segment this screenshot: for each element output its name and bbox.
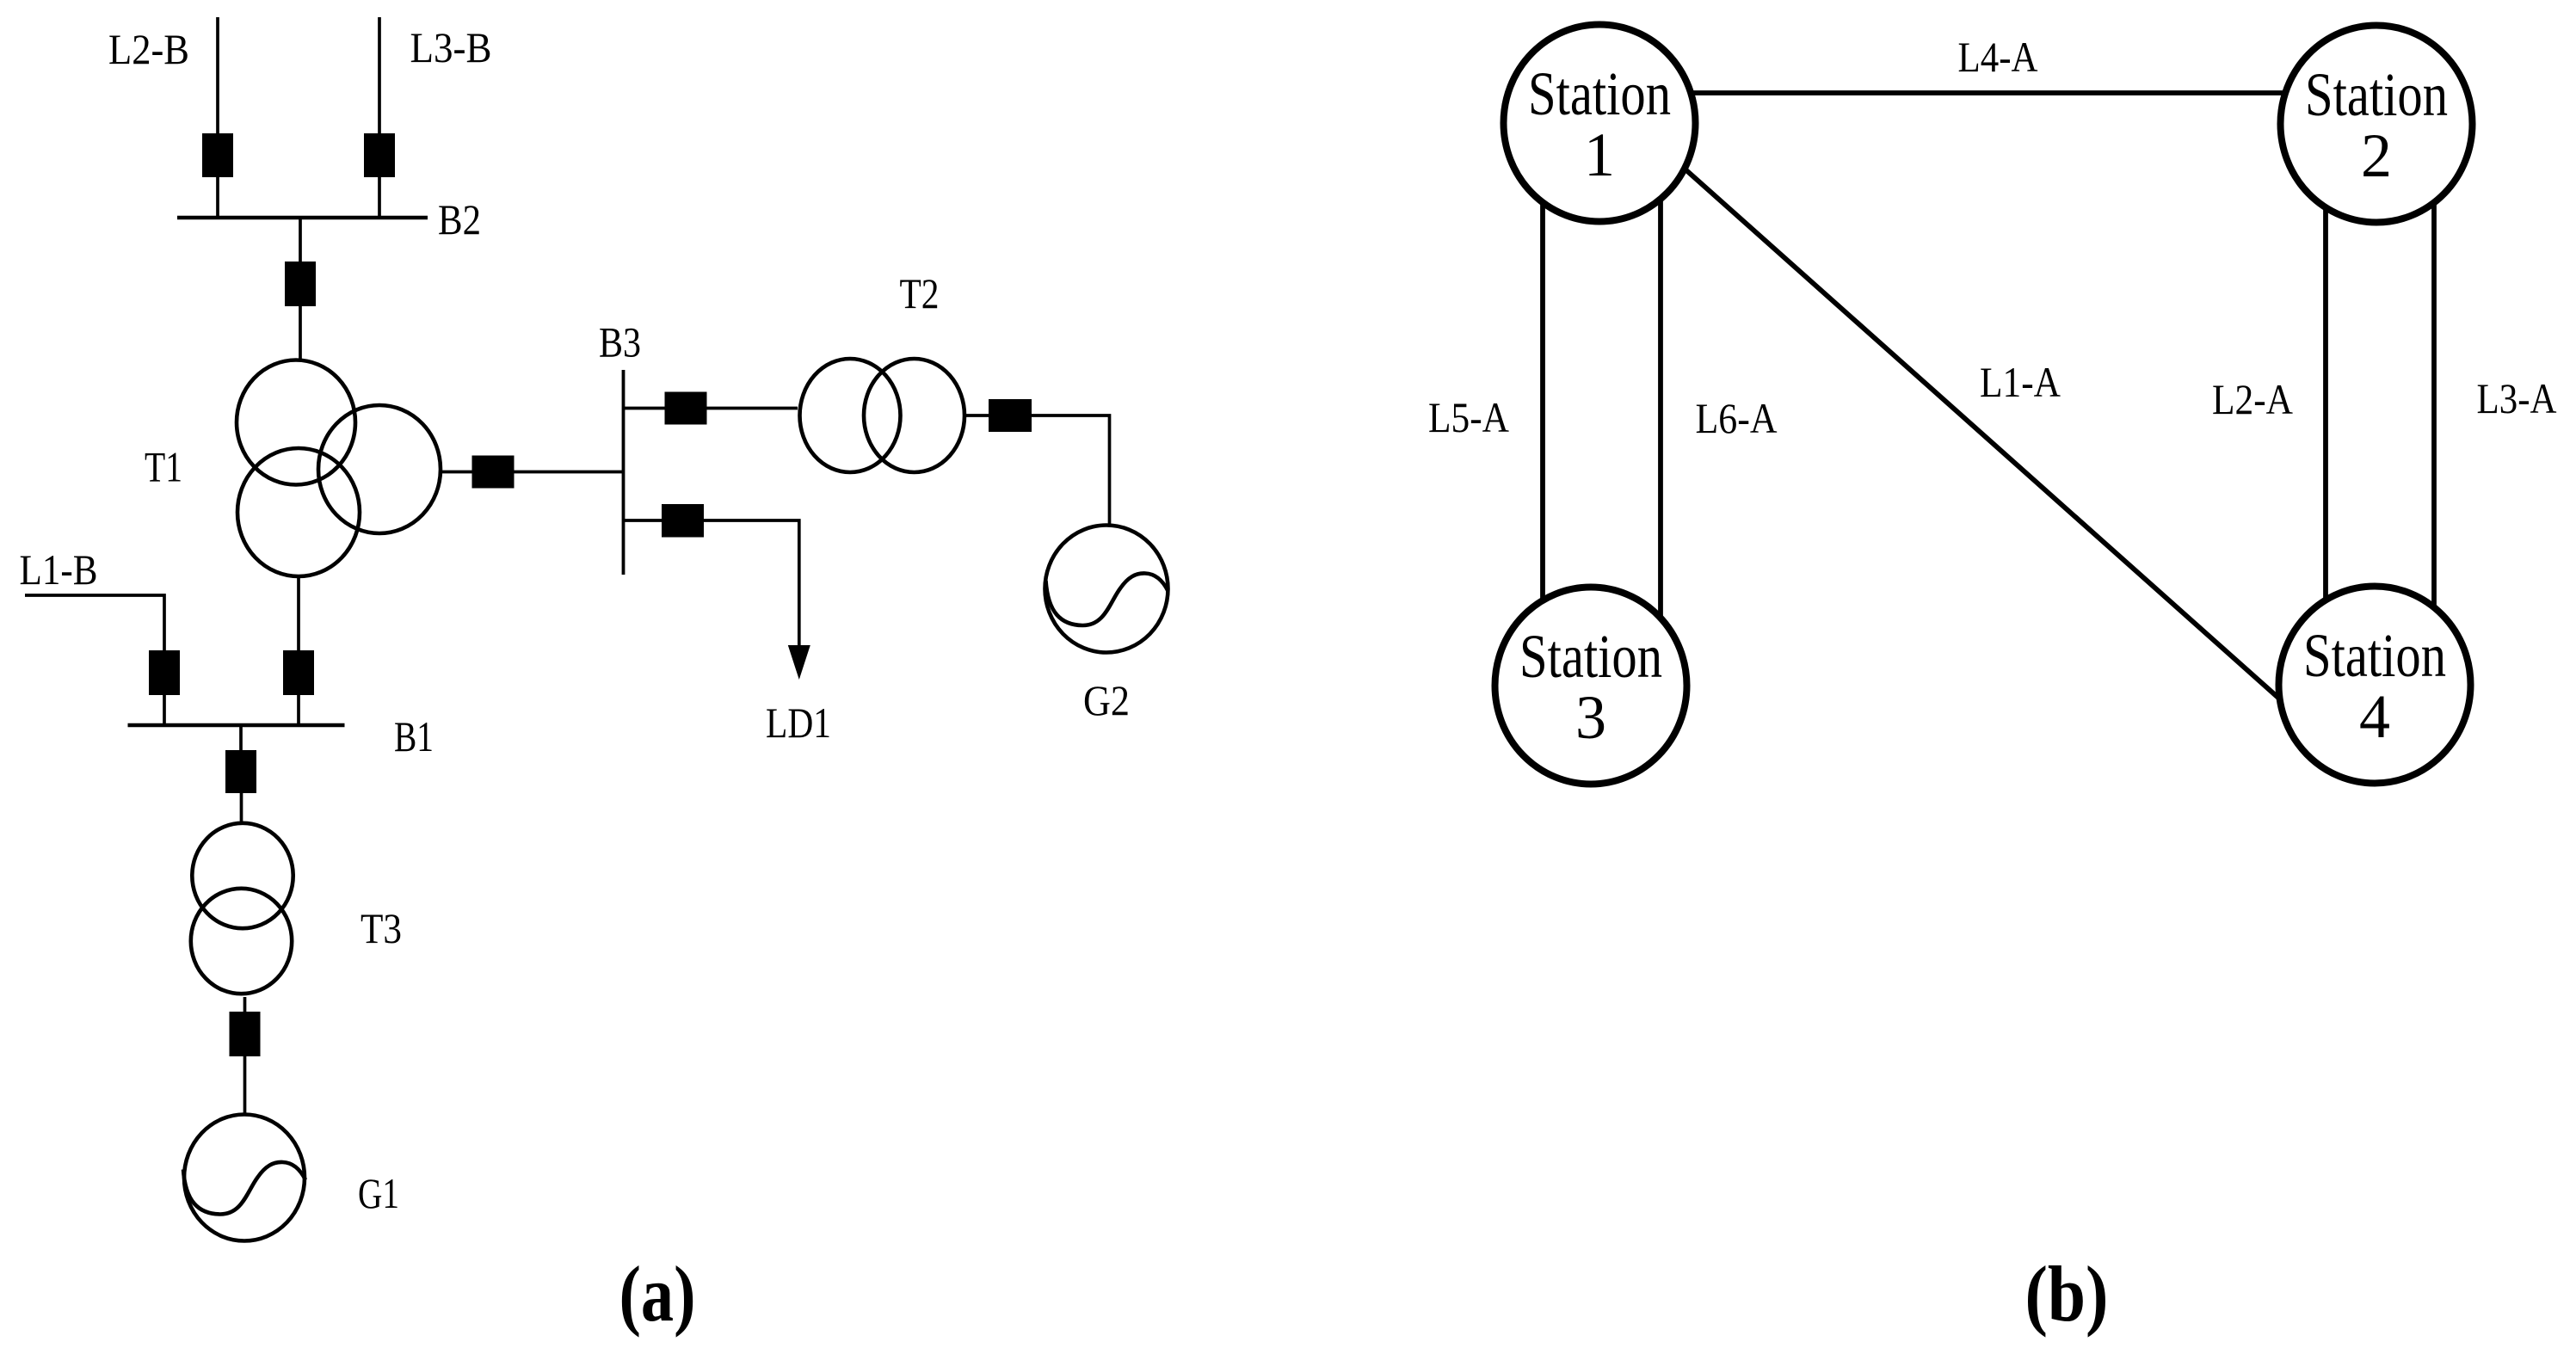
generator G2	[1045, 526, 1168, 653]
svg-text:L3-B: L3-B	[410, 23, 492, 71]
svg-text:4: 4	[2359, 682, 2390, 751]
wire B2 to T1	[299, 218, 302, 360]
wire T3 to breaker	[243, 997, 247, 1014]
wire line L1-B	[25, 595, 164, 651]
svg-text:Station: Station	[1519, 622, 1662, 691]
line L3-A Station2-Station4	[2431, 124, 2437, 685]
svg-text:2: 2	[2361, 121, 2392, 190]
breaker T3-G1	[230, 1012, 261, 1056]
breaker L1-B to B1	[149, 650, 180, 695]
wire breaker to G1	[243, 1056, 247, 1114]
transformer T1 (three-winding)	[237, 360, 441, 577]
node Station 1	[1504, 25, 1696, 222]
wire T1 bottom to breaker	[297, 577, 300, 651]
breaker B3-T2	[665, 392, 707, 425]
svg-text:(a): (a)	[619, 1250, 696, 1338]
wire T2 to G2 corner	[964, 415, 1110, 526]
svg-text:L3-A: L3-A	[2477, 374, 2557, 422]
labels panel (a)	[20, 23, 1131, 1217]
line L5-A Station1-Station3	[1540, 123, 1545, 686]
breaker T2-G2	[989, 399, 1032, 432]
wire T1 to B3	[441, 471, 622, 474]
svg-text:T2: T2	[900, 269, 940, 317]
node Station 4	[2279, 587, 2471, 784]
transformer T2 (two-winding)	[800, 359, 965, 472]
svg-text:L5-A: L5-A	[1428, 393, 1509, 441]
bus B3	[622, 370, 626, 575]
svg-text:B2: B2	[438, 195, 481, 243]
wire line L3-B vertical	[378, 17, 381, 218]
station labels	[1519, 59, 2448, 752]
svg-text:G1: G1	[358, 1169, 399, 1217]
node Station 3	[1495, 588, 1687, 785]
line L6-A Station1-Station3	[1658, 123, 1663, 686]
line L4-A Station1-Station2	[1599, 90, 2376, 95]
svg-text:L2-A: L2-A	[2212, 375, 2293, 423]
breaker B1-T3	[225, 750, 256, 793]
wire breaker to bus B1	[297, 694, 300, 725]
svg-text:(b): (b)	[2025, 1250, 2109, 1338]
breaker T1-B1	[283, 650, 314, 695]
svg-text:3: 3	[1575, 683, 1606, 752]
svg-text:L1-B: L1-B	[20, 545, 98, 594]
wire line L2-B vertical	[216, 17, 219, 218]
svg-text:L6-A: L6-A	[1696, 394, 1778, 442]
svg-text:L2-B: L2-B	[108, 25, 189, 73]
svg-text:1: 1	[1584, 120, 1615, 189]
breaker B2-T1	[285, 262, 316, 306]
svg-text:Station: Station	[1528, 59, 1671, 128]
svg-text:B3: B3	[599, 318, 641, 366]
wire B3 stub to load LD1	[624, 520, 799, 648]
svg-text:T1: T1	[145, 443, 182, 491]
svg-text:Station: Station	[2303, 621, 2446, 690]
wire B3 stub to T2	[624, 407, 798, 410]
bus B2	[177, 216, 428, 220]
breaker T1-B3	[472, 456, 515, 489]
breaker on L3-B	[364, 133, 395, 177]
bus B1	[128, 723, 345, 728]
wire breaker to T3	[240, 793, 243, 823]
breaker on L2-B	[202, 133, 233, 177]
load arrow LD1	[788, 645, 810, 680]
svg-text:L1-A: L1-A	[1980, 358, 2061, 406]
svg-text:B1: B1	[394, 712, 434, 760]
svg-text:LD1: LD1	[766, 699, 831, 747]
svg-text:L4-A: L4-A	[1958, 33, 2038, 81]
node Station 2	[2281, 26, 2473, 223]
wire B1 to breaker	[239, 726, 243, 751]
wire L1-B breaker to bus B1	[163, 694, 166, 725]
svg-text:Station: Station	[2305, 60, 2448, 129]
breaker B3-LD1	[662, 504, 704, 538]
line L1-A Station1-Station4 diagonal	[1615, 107, 2319, 734]
transformer T3 (two-winding)	[191, 823, 293, 994]
edge labels panel (b)	[1428, 33, 2557, 442]
generator G1	[183, 1115, 305, 1241]
svg-text:T3: T3	[361, 904, 402, 952]
line L2-A Station2-Station4	[2323, 124, 2328, 685]
svg-text:G2: G2	[1083, 676, 1130, 724]
